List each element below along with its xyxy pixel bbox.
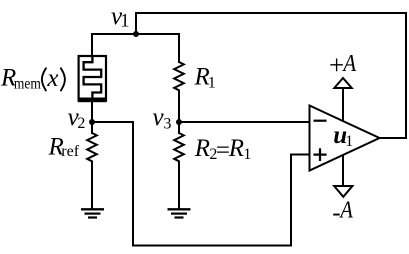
wire R1 bottom lead bbox=[178, 91, 180, 123]
-A supply arrow bbox=[334, 186, 352, 197]
wire R2 top lead bbox=[178, 122, 180, 133]
wire v3 to inverting input bbox=[179, 121, 310, 123]
op-amp U1 triangle bbox=[310, 106, 380, 171]
wire v2 right bbox=[92, 121, 133, 123]
memristor Rmem bottom bar bbox=[78, 98, 106, 103]
wire feedback top rail bbox=[136, 12, 406, 14]
wire R1 top lead bbox=[178, 34, 180, 62]
+A supply arrow bbox=[334, 78, 351, 88]
wire +A supply stem bbox=[342, 88, 344, 122]
wire op-amp output bbox=[379, 137, 406, 139]
wire bottom rail bbox=[133, 245, 291, 247]
memristor Rmem body bbox=[79, 56, 106, 101]
junction dot node v2 bbox=[89, 119, 95, 125]
op-amp noninverting input plus sign bbox=[314, 148, 327, 161]
op-amp inverting input minus sign bbox=[314, 120, 327, 122]
svg-text:-: - bbox=[332, 199, 340, 226]
wire up to noninverting input bbox=[290, 155, 292, 246]
svg-text:A: A bbox=[342, 50, 357, 77]
junction dot node v3 bbox=[176, 119, 182, 125]
wire memristor bottom lead bbox=[91, 102, 93, 133]
wire Rref bottom lead bbox=[91, 162, 93, 210]
resistor R1 zigzag bbox=[174, 62, 184, 90]
ground under Rref bbox=[81, 209, 104, 217]
svg-text:+: + bbox=[329, 50, 344, 80]
wire v1 feedback stub bbox=[135, 13, 137, 34]
wire -A supply stem bbox=[342, 155, 344, 186]
label Rmem(x) parentheses bbox=[42, 68, 65, 90]
resistor R2 zigzag bbox=[174, 133, 184, 161]
resistor Rref zigzag bbox=[87, 133, 97, 161]
wire noninverting input bbox=[291, 154, 310, 156]
svg-text:A: A bbox=[339, 196, 354, 223]
svg-text:R2=R1: R2=R1 bbox=[194, 135, 252, 164]
wire R2 bottom lead bbox=[178, 162, 180, 210]
junction dot node v1 bbox=[133, 31, 139, 37]
wire top rail v1 bbox=[92, 33, 179, 35]
wire feedback right side bbox=[405, 13, 407, 138]
wire memristor top lead bbox=[91, 34, 93, 56]
ground under R2 bbox=[168, 209, 191, 217]
wire v2 branch down bbox=[132, 122, 134, 246]
